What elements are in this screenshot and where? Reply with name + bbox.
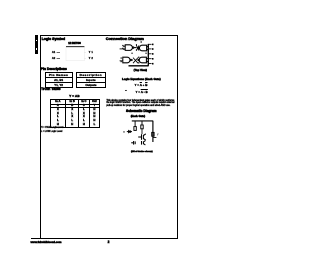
pin number 2 (122, 48, 123, 49)
schematic drawing (0, 0, 213, 275)
schematic caption (131, 151, 153, 153)
subheader letters (51, 104, 65, 107)
pin number 10 (132, 53, 133, 54)
transistor Q3 (142, 141, 146, 145)
transistor Q1 (138, 134, 146, 140)
pin label A2 (52, 57, 55, 60)
heading: Connection Diagram (106, 36, 144, 41)
heading line 2: each gate (131, 115, 145, 118)
pin dot 12 (152, 53, 154, 55)
pin stub 11 (148, 58, 151, 60)
logic symbol drawing (0, 0, 213, 275)
connection diagram drawing (0, 0, 213, 275)
heading: Logic Symbol (42, 37, 66, 41)
pin descriptions table (45, 72, 73, 88)
resistor R3 output (152, 132, 154, 136)
heading: logic equations (122, 77, 161, 81)
page frame (40, 35, 178, 239)
equation 1 (135, 83, 148, 87)
footer url (31, 240, 62, 244)
gate G3 (123, 57, 133, 63)
pin 14 label (141, 41, 142, 42)
symbol box U1 (66, 47, 84, 61)
data rows (51, 108, 65, 111)
wire R2 stub (134, 121, 136, 127)
pin number 1 (122, 45, 123, 46)
left pin stub 1 (120, 48, 125, 50)
footer page number (108, 240, 110, 244)
transistor Q2 (131, 141, 135, 145)
column divider 1 (group) (65, 100, 66, 127)
right bus wire (147, 44, 149, 66)
heading: Schematic Diagram (126, 109, 157, 113)
wire VCC right drop (152, 121, 154, 142)
pin dot 11 (152, 58, 154, 60)
wire crossing X2 (133, 58, 138, 64)
pin dot 13 (152, 48, 154, 50)
gate G1 (123, 45, 137, 51)
wire input A2 (57, 57, 60, 59)
descriptive paragraph (106, 100, 174, 102)
pin number 3 (136, 44, 137, 45)
logic symbol label (68, 43, 81, 45)
left pin stub 2 (120, 60, 123, 62)
equation 2 (125, 90, 127, 92)
table footnote 2 (41, 131, 62, 133)
pin number 6 (121, 61, 122, 62)
gate G2 (mirrored) (138, 45, 148, 51)
sidebar tab (part number) (35, 35, 38, 54)
gate G4 (mirrored) (138, 57, 148, 63)
subheader underline (51, 107, 99, 108)
function table equation label (69, 94, 80, 98)
diode D1 input (127, 130, 132, 132)
svg-text:Y: Y (157, 134, 159, 137)
pin label Y1 (89, 51, 94, 54)
wire R1 stub (141, 121, 143, 125)
VCC rail (132, 120, 153, 122)
resistor R1 (141, 125, 143, 129)
heading: Pin Descriptions (41, 67, 67, 71)
svg-text:A: A (123, 131, 125, 134)
output stub (153, 137, 157, 139)
pin number 9 (146, 53, 147, 54)
column divider 3 (group) (89, 100, 90, 127)
pin stub 13 (148, 48, 151, 50)
function table (50, 99, 100, 128)
wire crossing X1 (136, 45, 139, 50)
pin number 5 (121, 57, 122, 58)
column divider 2 (78, 100, 79, 127)
pin number 7 (138, 57, 139, 58)
wire output Y2 (84, 57, 85, 59)
footer rule (31, 238, 177, 239)
bottom wire (129, 65, 149, 67)
wire R1 to Q1 (141, 129, 143, 134)
pin number 8 (138, 62, 139, 63)
resistor R2 (134, 127, 136, 131)
header cells (51, 100, 65, 103)
pin stub 14 (148, 43, 151, 45)
heading: Function Table (41, 87, 61, 91)
pin stub 12 (148, 53, 151, 55)
pin stub 10 (148, 63, 151, 65)
table footnote 1 (41, 127, 63, 129)
header underline (51, 104, 99, 105)
pin label Y2 (89, 57, 94, 60)
caption: Top View (134, 69, 147, 72)
pin dot 14 (152, 44, 154, 46)
wire input A1 (57, 52, 60, 54)
pin label A1 (52, 51, 55, 54)
pin dot 10 (152, 63, 154, 65)
pin number 4 (136, 49, 137, 50)
wire output Y1 (84, 52, 85, 54)
